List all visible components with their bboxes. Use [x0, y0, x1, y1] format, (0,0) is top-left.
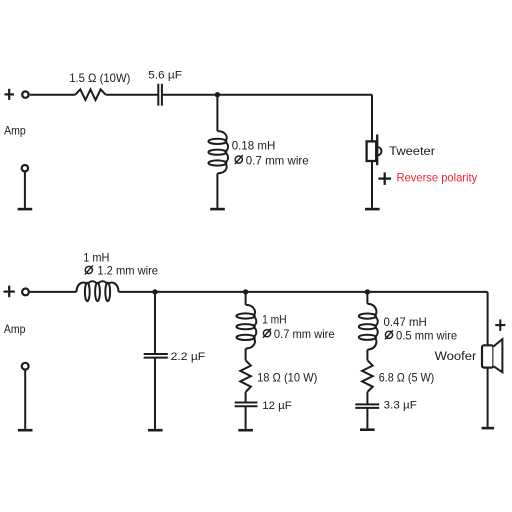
svg-text:0.47 mH: 0.47 mH: [384, 315, 427, 329]
svg-text:Woofer: Woofer: [435, 349, 477, 363]
svg-text:Amp: Amp: [4, 322, 26, 336]
svg-text:3.3 µF: 3.3 µF: [384, 400, 417, 412]
svg-text:1.5 Ω (10W): 1.5 Ω (10W): [69, 71, 130, 85]
svg-text:6.8 Ω (5 W): 6.8 Ω (5 W): [379, 371, 435, 385]
svg-text:Reverse polarity: Reverse polarity: [397, 171, 478, 185]
svg-text:0.7 mm wire: 0.7 mm wire: [274, 327, 335, 341]
svg-text:2.2 µF: 2.2 µF: [171, 351, 206, 363]
svg-text:18 Ω (10 W): 18 Ω (10 W): [257, 371, 317, 385]
svg-text:1.2 mm wire: 1.2 mm wire: [97, 264, 158, 278]
svg-text:0.5 mm wire: 0.5 mm wire: [396, 328, 457, 342]
svg-text:12 µF: 12 µF: [262, 400, 291, 412]
svg-text:1 mH: 1 mH: [262, 313, 287, 327]
svg-text:Amp: Amp: [4, 124, 26, 138]
svg-text:0.18 mH: 0.18 mH: [232, 138, 276, 152]
svg-text:0.7 mm wire: 0.7 mm wire: [246, 153, 309, 167]
svg-text:5.6 µF: 5.6 µF: [148, 69, 182, 81]
svg-text:Tweeter: Tweeter: [389, 144, 435, 158]
